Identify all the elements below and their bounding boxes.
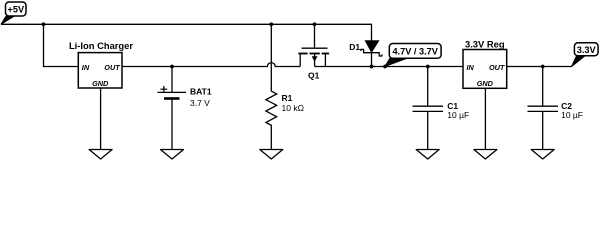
junction: top rail / charger IN drop bbox=[42, 22, 46, 26]
svg-text:OUT: OUT bbox=[104, 63, 120, 72]
wire: regulator OUT to 3.3V flag bbox=[507, 66, 572, 68]
svg-text:Li-Ion Charger: Li-Ion Charger bbox=[69, 40, 133, 51]
svg-text:10 µF: 10 µF bbox=[447, 110, 469, 120]
ground: charger bbox=[89, 150, 112, 160]
junction: R1 on top rail bbox=[269, 22, 273, 26]
capacitor C2 bbox=[528, 67, 559, 150]
net label 4.7V / 3.7V bbox=[385, 44, 441, 67]
ground: R1 bbox=[260, 150, 283, 160]
svg-text:OUT: OUT bbox=[489, 63, 505, 72]
diode D1 Schottky bbox=[361, 41, 382, 67]
junction: battery tap bbox=[170, 65, 174, 69]
svg-text:3.3V Reg: 3.3V Reg bbox=[465, 39, 505, 50]
transistor Q1 P-MOSFET bbox=[298, 24, 329, 66]
wire: charger GND bbox=[100, 88, 102, 150]
junction: 4.7V/3.7V tap bbox=[383, 65, 387, 69]
svg-text:Q1: Q1 bbox=[308, 70, 320, 80]
IC U1 Li-Ion Charger bbox=[69, 40, 133, 88]
ground: C1 bbox=[416, 150, 439, 160]
svg-text:3.3V: 3.3V bbox=[577, 45, 597, 55]
wire: regulator GND bbox=[484, 88, 486, 149]
junction: C2 tap bbox=[541, 65, 545, 69]
svg-text:IN: IN bbox=[467, 63, 475, 72]
net label +5V bbox=[1, 2, 26, 24]
svg-text:D1: D1 bbox=[349, 42, 360, 52]
svg-text:10 µF: 10 µF bbox=[561, 110, 583, 120]
svg-text:4.7V / 3.7V: 4.7V / 3.7V bbox=[392, 47, 438, 57]
svg-text:+5V: +5V bbox=[7, 5, 24, 15]
ground: C2 bbox=[531, 150, 554, 160]
net label 3.3V bbox=[572, 43, 599, 67]
ground: battery bbox=[161, 150, 184, 160]
resistor R1 bbox=[266, 24, 277, 149]
svg-text:R1: R1 bbox=[282, 93, 293, 103]
wire: +5V top rail to D1 anode bbox=[1, 24, 372, 41]
svg-text:IN: IN bbox=[82, 63, 90, 72]
svg-text:3.7 V: 3.7 V bbox=[190, 98, 210, 108]
battery BAT1 bbox=[158, 67, 187, 150]
svg-text:GND: GND bbox=[477, 79, 494, 88]
wire: main rail Q1 drain to regulator IN bbox=[315, 66, 463, 68]
svg-text:10 kΩ: 10 kΩ bbox=[282, 103, 304, 113]
svg-text:GND: GND bbox=[92, 79, 109, 88]
junction: D1 cathode on rail bbox=[370, 65, 374, 69]
wire: drop to charger IN bbox=[44, 24, 79, 66]
junction: Q1 gate on top rail bbox=[313, 22, 317, 26]
wire: main rail charger OUT to Q1 source (hops over R1) bbox=[122, 63, 300, 67]
junction: C1 tap bbox=[426, 65, 430, 69]
svg-text:BAT1: BAT1 bbox=[190, 87, 212, 97]
IC U2 3.3V regulator bbox=[463, 39, 507, 89]
ground: regulator bbox=[474, 150, 497, 160]
capacitor C1 bbox=[413, 67, 444, 150]
